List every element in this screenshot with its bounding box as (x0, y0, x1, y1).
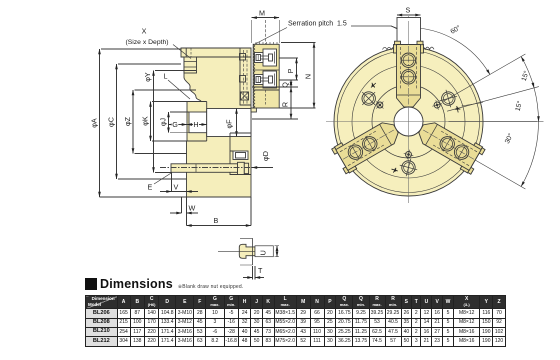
dim phiJ (168, 112, 170, 133)
svg-text:X: X (142, 27, 147, 36)
svg-text:V: V (174, 183, 179, 192)
svg-text:30°: 30° (503, 132, 515, 145)
svg-text:60°: 60° (449, 24, 462, 36)
check marks (371, 83, 376, 88)
dim phiY (153, 71, 155, 173)
bore phiF window (through hole at front) (207, 109, 251, 137)
dim B (250, 197, 252, 226)
dimension arc (410, 28, 490, 75)
jaw bolt assembly 1 (255, 49, 277, 66)
svg-text:U: U (259, 250, 268, 255)
radial dim lines 30,15,0,-30 (443, 54, 543, 189)
svg-text:S: S (406, 6, 411, 15)
bore phiJ window (189, 112, 207, 133)
jaw at 210 deg (331, 116, 403, 175)
svg-text:15°: 15° (520, 70, 531, 83)
leader X (173, 45, 191, 59)
svg-text:G: G (172, 120, 178, 129)
svg-text:φA: φA (90, 118, 99, 128)
jaw at 330 deg (414, 116, 486, 175)
svg-text:H: H (193, 120, 198, 129)
chuck body section silhouette (181, 48, 251, 197)
svg-text:φF: φF (225, 119, 234, 129)
dim N (313, 43, 315, 109)
dim phiK (150, 102, 152, 142)
front-bottom stepped recess (230, 133, 251, 175)
dim W (181, 197, 183, 213)
svg-text:T: T (258, 266, 263, 275)
jaw vertical centerline visible in extension (408, 21, 410, 44)
small step under jaw (251, 108, 256, 112)
jaw hidden centerline up to M dim (265, 20, 267, 44)
crossed square (spring pocket) (241, 92, 249, 100)
leader L (168, 80, 190, 99)
svg-text:15°: 15° (514, 100, 524, 112)
dim V (172, 173, 187, 226)
dim P (296, 58, 298, 80)
svg-text:P: P (286, 68, 295, 73)
jaws (front view) (331, 18, 485, 175)
chuck body front (334, 47, 483, 196)
jaw block (section) (253, 44, 279, 108)
svg-text:φD: φD (261, 151, 270, 161)
jaw mid split line (253, 69, 279, 71)
svg-text:φY: φY (143, 72, 152, 82)
svg-text:L: L (164, 72, 168, 81)
dimensions table (85, 295, 506, 347)
dim G / H (169, 124, 187, 126)
dim R (290, 87, 292, 119)
hub bottom line (187, 140, 207, 142)
master jaw back edge (240, 48, 251, 105)
svg-text:E: E (148, 183, 153, 192)
dim phiZ (132, 90, 134, 154)
crosshair centerlines (326, 16, 537, 203)
jaw bolt assembly 2 (255, 71, 277, 88)
mounting bolt E (section) (171, 164, 238, 173)
bore (394, 107, 423, 136)
hub top line (187, 101, 207, 103)
dim phiF (236, 109, 238, 137)
svg-text:φC: φC (107, 117, 116, 127)
svg-text:(Size x Depth): (Size x Depth) (125, 39, 168, 46)
dim phiA (99, 49, 101, 197)
big screws (362, 92, 375, 105)
jaw at 90 deg (top) (394, 41, 424, 107)
body back plate joint line (196, 56, 251, 58)
dim S (391, 15, 421, 29)
svg-text:W: W (189, 204, 196, 213)
serration zigzag (253, 44, 255, 108)
svg-text:N: N (304, 74, 313, 79)
hub front face (206, 102, 208, 142)
svg-text:φZ: φZ (123, 116, 132, 126)
X mounting hole bolt at body back (185, 48, 187, 57)
serration scallop bumps on rim (383, 47, 434, 49)
leader E (154, 173, 172, 185)
small screws (376, 102, 383, 109)
svg-text:R: R (281, 102, 290, 107)
master jaw hidden bolt lines (243, 50, 245, 104)
title (85, 277, 243, 291)
jaw lower line (253, 89, 279, 91)
svg-text:φJ: φJ (159, 117, 168, 126)
serration leader (255, 28, 287, 45)
dim phiC (116, 64, 118, 179)
dim phiD leader (252, 167, 273, 169)
dim Q (290, 80, 292, 87)
svg-text:Serration pitch 1.5: Serration pitch 1.5 (288, 21, 347, 28)
svg-text:B: B (214, 216, 219, 225)
dim M (252, 17, 280, 19)
svg-text:φK: φK (141, 116, 150, 126)
master jaw small bolt rects (240, 54, 246, 61)
bolt centerline (160, 167, 258, 169)
top jaw upper white extension (397, 18, 421, 45)
svg-text:Q: Q (281, 82, 290, 88)
svg-text:M: M (259, 9, 265, 18)
